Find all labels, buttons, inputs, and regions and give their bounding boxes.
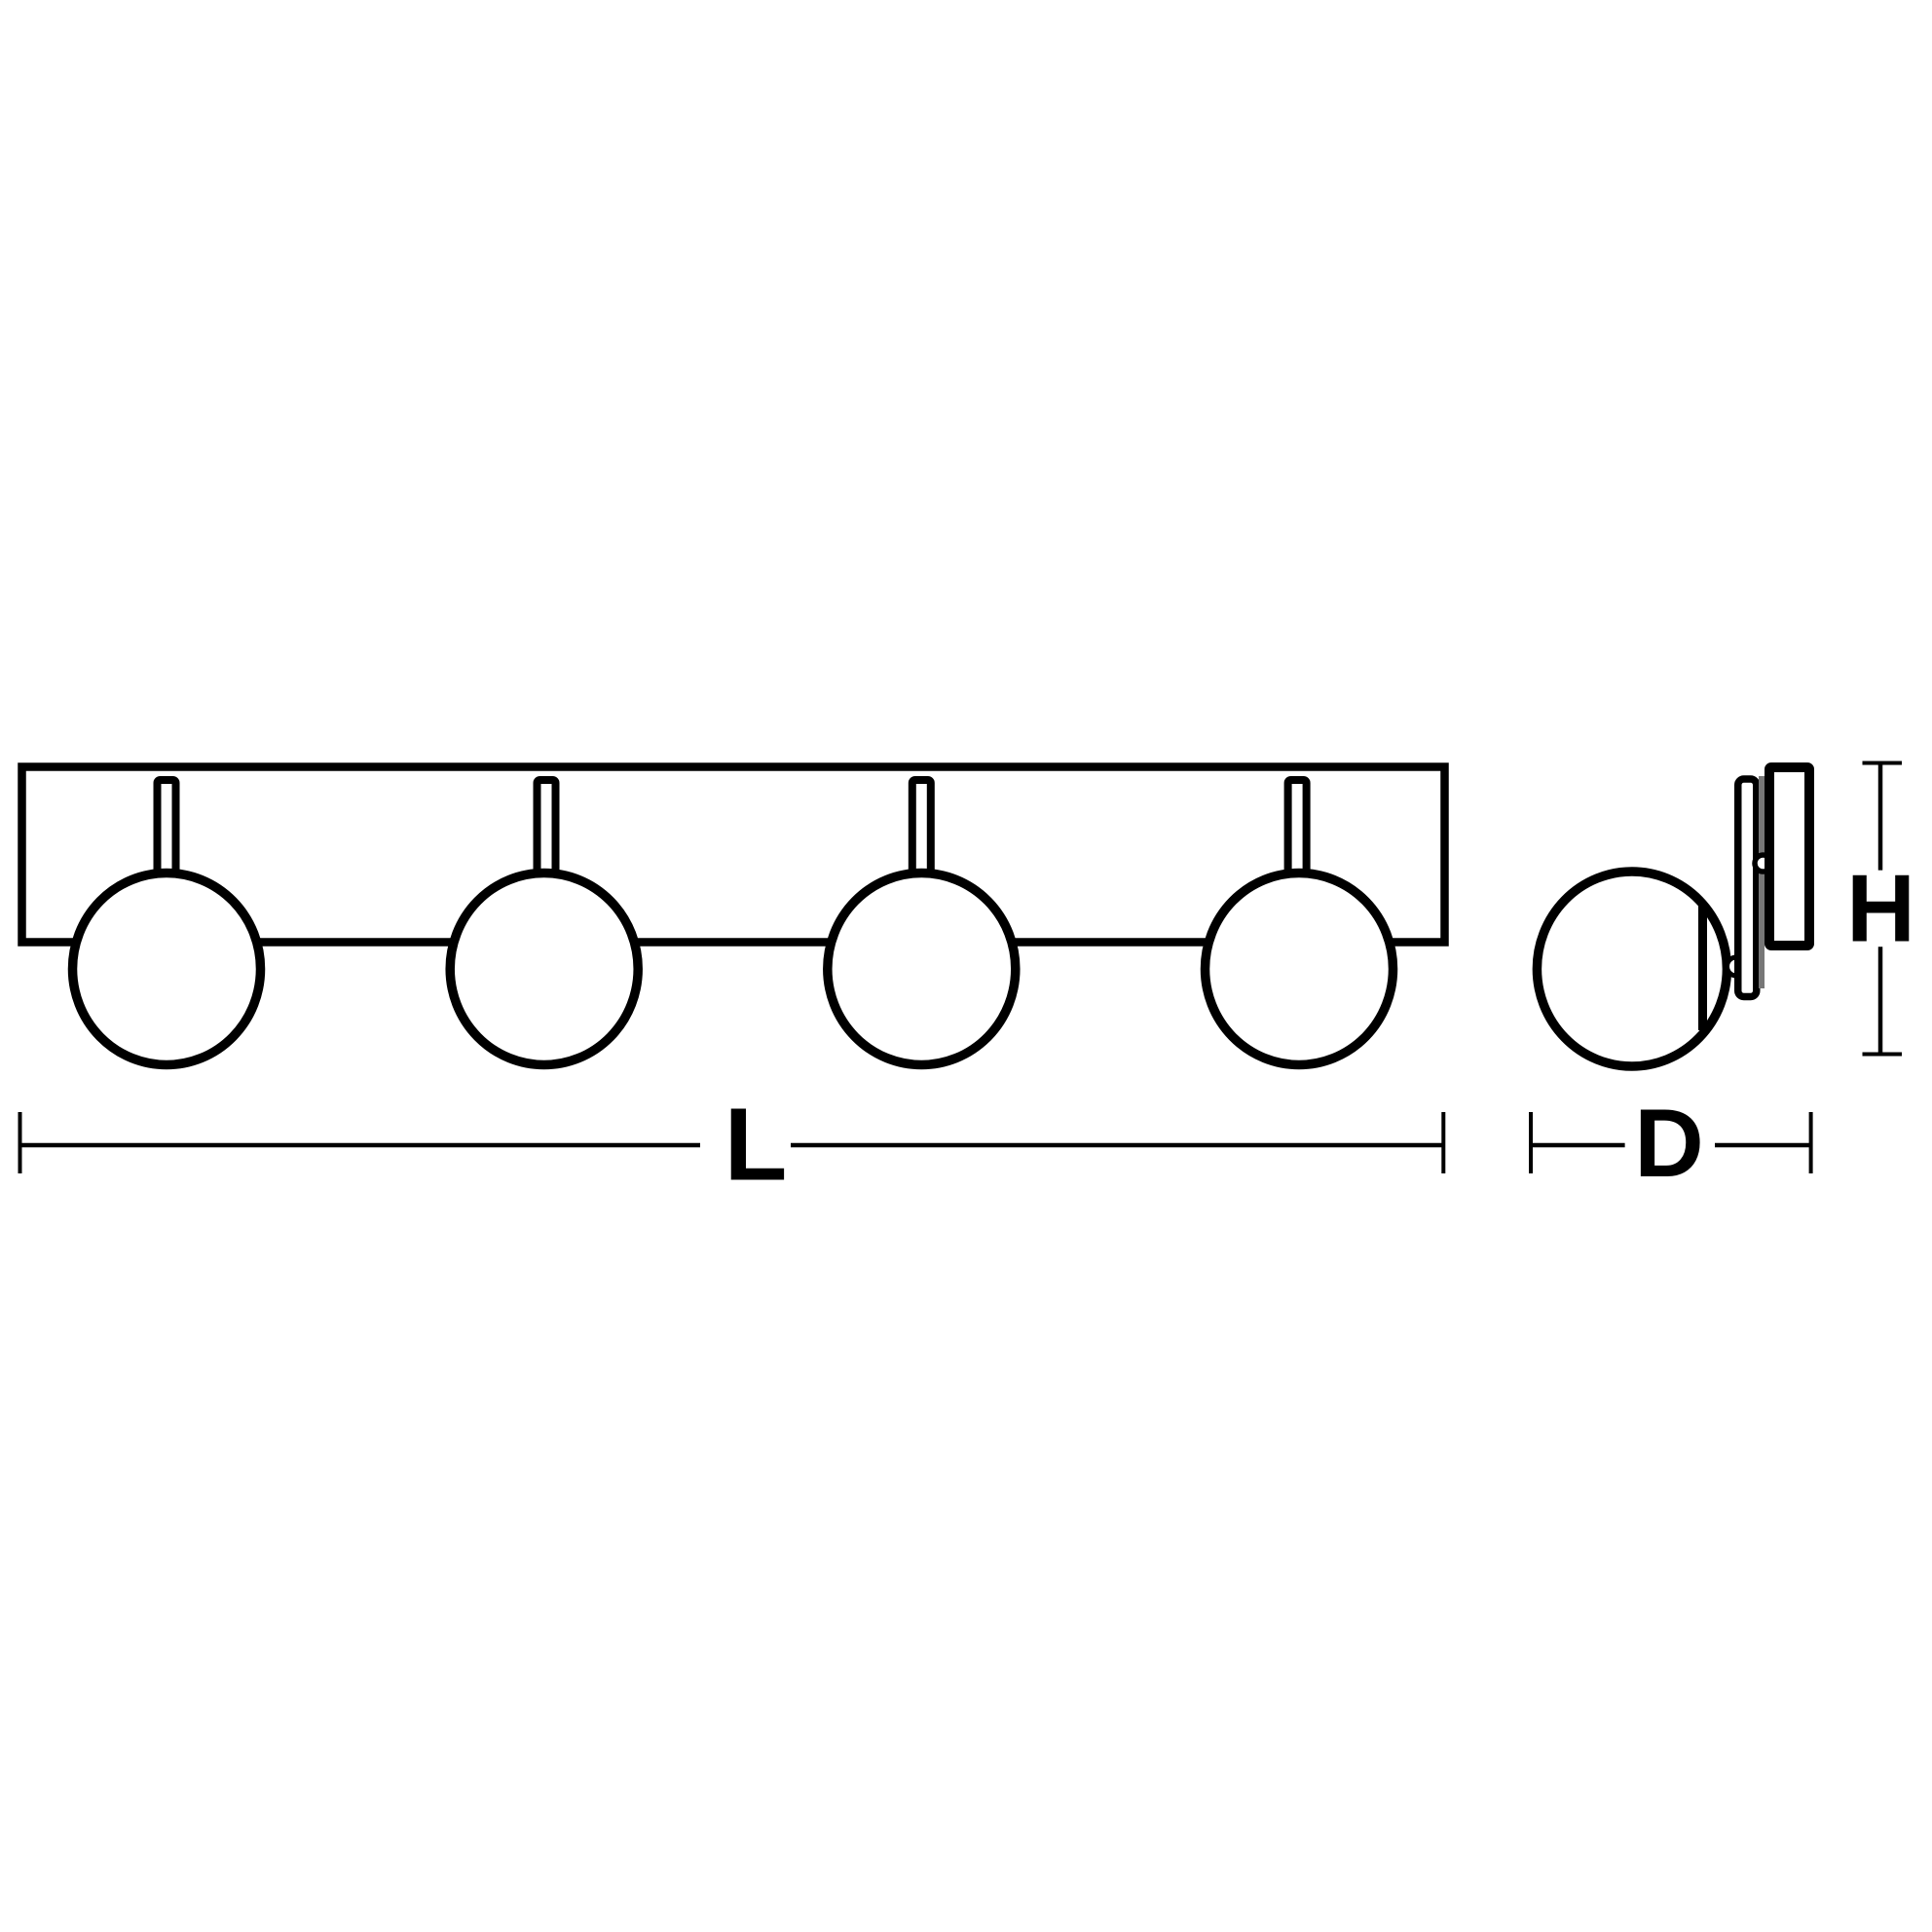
dimension L: right tick (1441, 1112, 1445, 1173)
globe 3 (front view) (828, 873, 1016, 1065)
dimension L: left tick (19, 1112, 22, 1173)
globe 2 (front view) (450, 873, 638, 1065)
lower pivot knob (side view) (1728, 957, 1746, 976)
stem 3 (912, 780, 931, 877)
dimension H: upper segment (1878, 763, 1883, 871)
upper pivot knob (side view) (1755, 855, 1771, 872)
dimension D: right segment (1715, 1143, 1811, 1148)
dimension L: right segment (791, 1143, 1443, 1148)
svg-text:L: L (724, 1088, 788, 1203)
globe flat face chord (side view) (1698, 903, 1707, 1030)
dimension L: left segment (20, 1143, 701, 1148)
wall plate (side view) (1769, 767, 1809, 946)
mounting bar (front view) (22, 767, 1445, 943)
globe 4 (front view) (1206, 873, 1393, 1065)
svg-text:D: D (1634, 1089, 1704, 1197)
stem 2 (538, 780, 556, 877)
shadow strip between arm and plate (1759, 776, 1765, 988)
dimension H: bottom tick (1863, 1053, 1903, 1057)
dimension D: left segment (1531, 1143, 1625, 1148)
globe (side view) (1537, 872, 1727, 1066)
dimension H: lower segment (1878, 947, 1883, 1054)
dimension D: left tick (1529, 1112, 1533, 1173)
svg-text:H: H (1846, 855, 1915, 962)
stem 4 (1288, 780, 1307, 877)
stem 1 (158, 780, 176, 877)
arm (side view) (1738, 779, 1757, 997)
dimension D: right tick (1809, 1112, 1813, 1173)
dimension H: top tick (1863, 762, 1903, 765)
globe 1 (front view) (73, 873, 261, 1065)
